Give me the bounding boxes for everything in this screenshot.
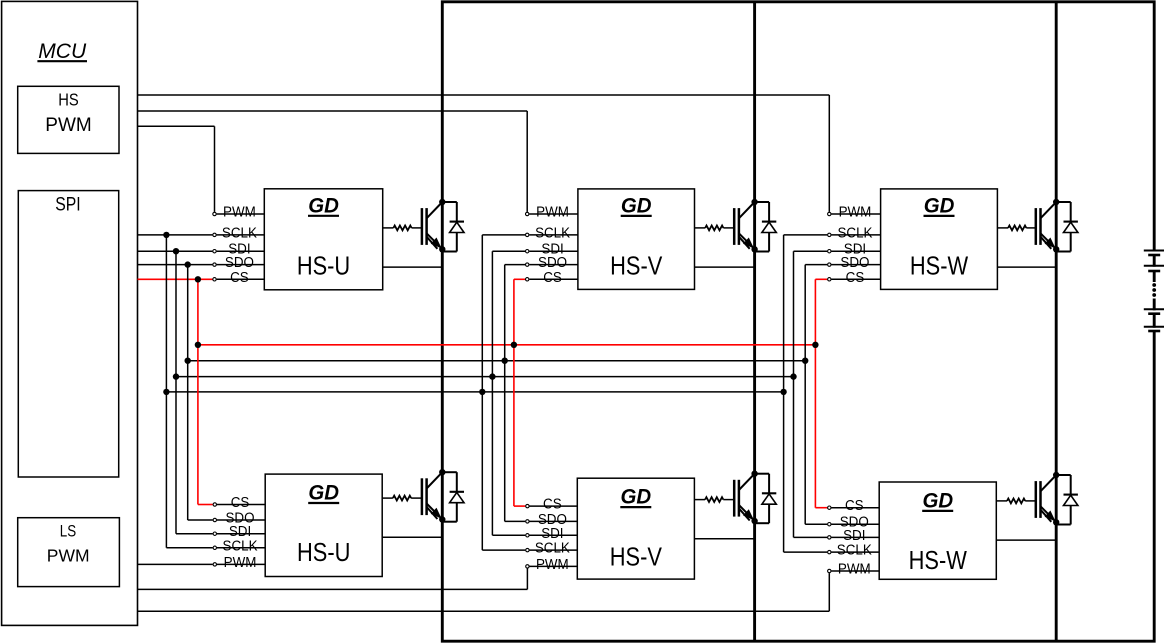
svg-text:SCLK: SCLK	[223, 538, 259, 555]
svg-text:HS: HS	[58, 90, 79, 110]
svg-text:MCU: MCU	[38, 40, 87, 63]
svg-text:PWM: PWM	[224, 554, 257, 571]
svg-text:GD: GD	[922, 489, 953, 513]
svg-text:PWM: PWM	[536, 204, 569, 221]
svg-text:GD: GD	[621, 194, 652, 218]
svg-text:HS-V: HS-V	[610, 252, 662, 281]
svg-text:SCLK: SCLK	[837, 225, 873, 242]
svg-text:HS-W: HS-W	[909, 546, 968, 575]
svg-text:CS: CS	[543, 496, 562, 513]
svg-text:PWM: PWM	[45, 115, 91, 136]
svg-text:CS: CS	[846, 269, 865, 286]
svg-text:CS: CS	[230, 269, 249, 286]
svg-text:SPI: SPI	[55, 193, 80, 215]
svg-text:PWM: PWM	[536, 556, 569, 573]
svg-text:GD: GD	[308, 194, 339, 218]
svg-text:HS-V: HS-V	[610, 543, 662, 572]
svg-text:SCLK: SCLK	[837, 542, 873, 559]
svg-text:HS-U: HS-U	[297, 252, 350, 281]
svg-text:GD: GD	[621, 485, 652, 509]
svg-text:PWM: PWM	[223, 204, 256, 221]
svg-text:GD: GD	[924, 194, 955, 218]
svg-text:PWM: PWM	[839, 204, 872, 221]
svg-text:SCLK: SCLK	[535, 540, 571, 557]
svg-text:HS-W: HS-W	[910, 252, 969, 281]
svg-text:PWM: PWM	[47, 545, 90, 565]
svg-text:LS: LS	[60, 522, 76, 541]
svg-text:SCLK: SCLK	[222, 225, 258, 242]
svg-text:GD: GD	[308, 481, 339, 505]
svg-text:CS: CS	[231, 494, 250, 511]
svg-text:HS-U: HS-U	[297, 538, 350, 567]
svg-text:PWM: PWM	[838, 561, 871, 578]
svg-text:SCLK: SCLK	[535, 225, 571, 242]
svg-text:CS: CS	[845, 498, 864, 515]
svg-text:CS: CS	[543, 269, 562, 286]
